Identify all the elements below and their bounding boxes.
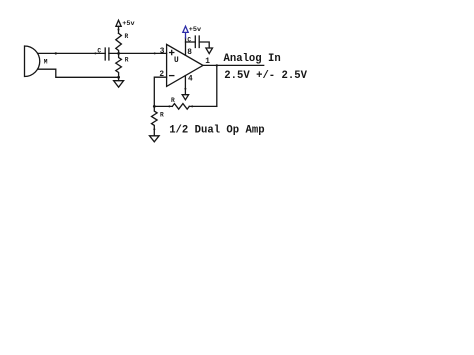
junction dot xyxy=(117,76,120,79)
junction dot node B xyxy=(153,105,156,108)
resistor R3 xyxy=(172,104,189,110)
svg-text:M: M xyxy=(44,59,48,66)
resistor R1 xyxy=(116,33,122,53)
minus input mark xyxy=(170,75,174,77)
pin 8 supply line xyxy=(185,38,187,55)
svg-text:8: 8 xyxy=(187,49,192,57)
wire mic top to capacitor C1 xyxy=(38,52,106,54)
pin dot xyxy=(168,105,170,107)
resistor R2 xyxy=(116,53,122,77)
wire to bypass capacitor xyxy=(186,41,196,43)
feedback wire horizontal xyxy=(154,105,217,107)
wire C1 to op-amp pin 3 xyxy=(109,52,167,54)
pin 4 line xyxy=(184,76,186,95)
svg-text:U: U xyxy=(174,57,179,65)
resistor R4 xyxy=(152,106,158,135)
pin dot xyxy=(191,105,193,107)
svg-text:R: R xyxy=(160,112,164,119)
junction dot xyxy=(117,52,120,55)
svg-text:Analog In: Analog In xyxy=(224,53,281,65)
output wire pin 1 xyxy=(203,64,264,66)
svg-text:2: 2 xyxy=(159,71,164,79)
op-amp U xyxy=(167,44,203,86)
microphone M xyxy=(25,46,40,77)
pin dot xyxy=(153,128,155,130)
+5V supply arrow (blue) xyxy=(183,26,188,38)
capacitor C2 xyxy=(195,36,199,48)
wire mic bottom xyxy=(38,69,119,77)
junction dot node A xyxy=(55,52,57,54)
pin dot xyxy=(184,88,186,90)
ground at C2 xyxy=(206,48,213,54)
svg-text:R: R xyxy=(125,33,129,40)
wire C2 to ground xyxy=(199,42,209,48)
pin dot xyxy=(118,29,120,31)
wire pin 2 xyxy=(154,77,166,106)
pin dot xyxy=(154,52,156,54)
svg-text:+5v: +5v xyxy=(189,26,201,34)
svg-text:4: 4 xyxy=(188,75,193,83)
ground at pin 4 xyxy=(182,95,188,100)
svg-text:1/2 Dual Op Amp: 1/2 Dual Op Amp xyxy=(169,125,264,137)
feedback wire vertical xyxy=(216,65,218,106)
svg-text:C: C xyxy=(97,47,101,54)
pin dot xyxy=(94,52,96,54)
ground under R2 xyxy=(114,77,124,87)
svg-text:+5v: +5v xyxy=(122,20,134,28)
capacitor C1 xyxy=(105,48,109,60)
svg-text:1: 1 xyxy=(205,58,210,66)
svg-text:3: 3 xyxy=(160,48,165,56)
svg-text:R: R xyxy=(125,57,129,64)
+5V supply arrow (black) xyxy=(116,20,121,33)
plus input mark xyxy=(170,50,174,54)
ground under R4 xyxy=(150,136,160,142)
svg-text:R: R xyxy=(171,97,175,104)
junction dot xyxy=(216,64,218,66)
svg-text:2.5V +/- 2.5V: 2.5V +/- 2.5V xyxy=(224,70,307,82)
